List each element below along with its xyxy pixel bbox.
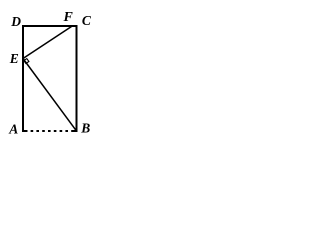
- wire: segment EB: [23, 59, 77, 132]
- svg-text:F: F: [63, 10, 74, 25]
- geometry figure: rectangle ABCD with fold lines EF and EB: [0, 0, 96, 139]
- svg-text:A: A: [8, 122, 18, 137]
- right-angle mark at E: [24, 59, 29, 64]
- svg-text:B: B: [80, 120, 90, 135]
- svg-text:D: D: [10, 14, 21, 29]
- wire: segment EF: [23, 27, 72, 59]
- wire: bottom edge corner arm at A: [22, 130, 28, 132]
- rectangle sides left/top/right (solid): [23, 26, 77, 132]
- svg-text:C: C: [82, 13, 92, 28]
- wire: bottom edge AB dashed middle: [31, 130, 72, 132]
- svg-text:E: E: [9, 51, 19, 66]
- wire: bottom edge corner arm at B: [72, 130, 78, 132]
